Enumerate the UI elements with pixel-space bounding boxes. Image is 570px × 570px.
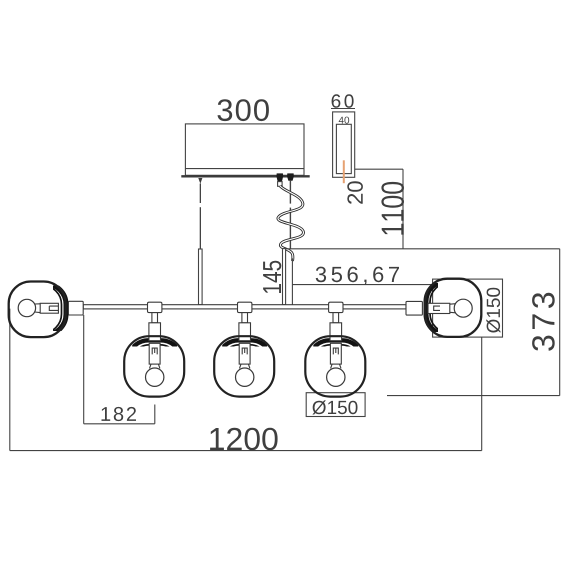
dim text 40 (339, 117, 350, 124)
suspension wire upper segment (199, 184, 201, 204)
left globe bulb neck (34, 304, 40, 313)
connector on bar 3 (329, 302, 343, 312)
side view outer profile (333, 112, 355, 177)
182 left extension line (83, 315, 85, 424)
canopy mounting plate (181, 175, 309, 177)
canopy front view (185, 124, 304, 175)
bulb 2 neck (240, 364, 250, 368)
dim text o150 right (486, 288, 500, 333)
coiled power cord outer stroke (278, 186, 304, 261)
bulb 3 (327, 368, 345, 386)
left globe socket (68, 301, 83, 315)
dim text o150 bottom (312, 400, 357, 414)
1200 right extension line (481, 337, 483, 451)
socket 1 (149, 343, 160, 364)
left globe bulb (18, 299, 35, 316)
globe 1 glass (124, 336, 184, 396)
right globe bulb base (428, 303, 450, 313)
right suspension tube (283, 249, 286, 305)
extension line ceiling to 1100 (355, 168, 403, 170)
socket 2 slot (242, 348, 247, 354)
socket 3 (330, 343, 341, 364)
neck 3 (333, 313, 339, 323)
373 box right line (559, 249, 561, 396)
horizontal bar (83, 305, 406, 309)
pendant globe 1 group (124, 302, 184, 396)
dim text 356,67 (316, 267, 399, 285)
right globe crescent (426, 281, 481, 335)
right globe bulb neck (450, 304, 456, 313)
right o150 dim box (433, 279, 503, 337)
tube 2 (239, 323, 251, 341)
globe 3 glass (305, 336, 365, 396)
dim text 1100 (381, 182, 404, 235)
373 box top line (286, 248, 560, 250)
vertical 1100 extension line (402, 169, 404, 249)
canopy inner line (185, 168, 304, 170)
connector on bar 2 (238, 302, 252, 312)
dim text 300 (218, 99, 269, 121)
dim text 145 (263, 261, 281, 293)
bulb 2 (236, 368, 254, 386)
cable gland left ferrule (278, 182, 283, 187)
right globe bulb base contact (434, 306, 440, 310)
left globe glass (9, 282, 66, 338)
dim text 20 (347, 181, 363, 204)
socket 3 slot (333, 348, 338, 354)
cable gland left (276, 173, 283, 181)
crescent 1 (128, 340, 182, 394)
dim line 356,67 (292, 284, 432, 286)
left suspension tube (199, 249, 203, 305)
steel cable lower segment with break (289, 208, 291, 249)
right globe bulb (454, 299, 472, 317)
globe 2 glass (214, 336, 274, 396)
182 right extension line (154, 405, 156, 424)
suspension wire lower segment with break (199, 207, 201, 249)
left globe crescent (10, 284, 67, 335)
neck 1 (152, 313, 158, 323)
dim text 373 (532, 293, 555, 351)
suspension rod arrow tip (198, 178, 202, 184)
steel cable upper segment (289, 181, 291, 204)
right globe socket (406, 301, 422, 315)
tube 1 (149, 323, 161, 341)
bottom o150 dim box (306, 393, 365, 417)
left globe bulb base contact (49, 306, 58, 310)
dim text 60 (332, 94, 354, 108)
crescent 3 (309, 340, 363, 394)
pendant globe 2 group (214, 302, 274, 396)
right globe glass (425, 279, 481, 337)
neck 2 (242, 313, 248, 323)
bulb 1 neck (150, 364, 160, 368)
side view dim line 60 (331, 108, 355, 110)
coiled power cord inner white (278, 186, 304, 261)
373 box bottom line (387, 395, 560, 397)
side view inner channel (336, 124, 351, 173)
crescent 2 (218, 340, 272, 394)
dim text 1200 (210, 428, 278, 451)
cable gland right (287, 173, 294, 180)
bulb 1 (146, 368, 164, 386)
extension line at cable for 356,67 (291, 258, 293, 304)
dim text 182 (102, 407, 137, 421)
pendant globe 3 group (305, 302, 365, 396)
tube 3 (330, 323, 342, 341)
1200 left extension line (9, 309, 11, 451)
bulb 3 neck (331, 364, 341, 368)
connector on bar 1 (148, 302, 162, 312)
socket 1 slot (152, 348, 157, 354)
orange highlight line (343, 160, 345, 183)
1200 dim line (10, 450, 482, 452)
left globe bulb base (40, 303, 58, 313)
182 dim line (84, 423, 155, 425)
socket 2 (239, 343, 250, 364)
